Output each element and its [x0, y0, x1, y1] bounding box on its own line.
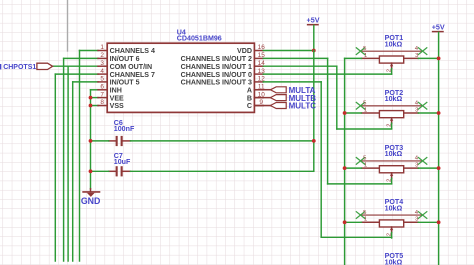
pin 12 CHANNELS IN/OUT 3 stub: [254, 81, 263, 83]
pin name CHANNELS IN/OUT 2: [181, 55, 252, 63]
svg-text:6: 6: [100, 84, 104, 91]
svg-text:1: 1: [364, 107, 367, 113]
pin 16 VDD stub: [254, 50, 263, 52]
junction C7/GND: [89, 169, 93, 173]
svg-text:CHANNELS IN/OUT 1: CHANNELS IN/OUT 1: [181, 63, 252, 71]
pin name VSS: [110, 102, 124, 110]
POT1 pin numbers: [363, 46, 419, 72]
svg-text:1: 1: [364, 217, 367, 223]
resistor POT4 (potentiometer): [356, 212, 427, 233]
pin 10 B stub: [254, 97, 263, 99]
capacitor C7 refdes: [114, 152, 123, 160]
net flag CHPOTS1: [37, 63, 53, 69]
pin name IN/OUT 6: [110, 55, 140, 63]
junction POT2 pin1/bus: [343, 111, 347, 115]
wire POT3 pin1 to bus: [345, 167, 362, 169]
svg-text:10kΩ: 10kΩ: [385, 204, 403, 212]
wire pin stub to flag MULTB: [254, 97, 270, 99]
pin number 10: [258, 91, 266, 98]
resistor POT5 refdes (partially visible): [385, 252, 404, 260]
pin name CHANNELS IN/OUT 0: [181, 71, 252, 79]
wire net CHPOTS1 horizontal to pin 3: [52, 65, 98, 67]
pin number 3: [100, 60, 104, 67]
svg-text:10uF: 10uF: [114, 158, 131, 166]
net label MULTC: [289, 102, 317, 111]
pin 14 CHANNELS IN/OUT 1 stub: [254, 65, 263, 67]
svg-text:IN/OUT 5: IN/OUT 5: [110, 79, 140, 87]
wire POT3 pin3 to +5V rail: [418, 167, 438, 169]
svg-text:5: 5: [100, 76, 104, 83]
svg-text:2: 2: [100, 52, 104, 59]
junction pin 8 VSS: [89, 104, 93, 108]
pin number 4: [100, 68, 104, 75]
wire +5V vertical down to C6/C7: [313, 51, 315, 172]
pin 13 CHANNELS IN/OUT 0 stub: [254, 73, 263, 75]
resistor POT3 (potentiometer): [356, 158, 427, 179]
svg-text:3: 3: [100, 60, 104, 67]
pin name COM OUT/IN: [110, 63, 153, 71]
resistor POT3 value 10k: [385, 150, 403, 158]
IC U4 value CD4051BM96: [177, 34, 222, 42]
pin 8 VSS stub: [98, 105, 107, 107]
capacitor C6 value 100nF: [114, 125, 135, 133]
junction POT3 pin1/bus: [343, 166, 347, 170]
op IC U4 CD4051BM96 body: [107, 43, 254, 112]
svg-text:CHANNELS IN/OUT 0: CHANNELS IN/OUT 0: [181, 71, 252, 79]
pin number 8: [100, 99, 104, 106]
pin 7 VEE stub: [98, 97, 107, 99]
pin name CHANNELS IN/OUT 1: [181, 63, 252, 71]
wire GND net: INH/VEE/VSS down to GND: [91, 90, 99, 189]
pin number 9: [259, 99, 263, 106]
power +5V label: [307, 16, 320, 25]
pin 11 A stub: [254, 89, 263, 91]
svg-text:C: C: [247, 102, 252, 110]
IC U4 refdes: [177, 28, 186, 36]
svg-text:7: 7: [100, 91, 104, 98]
pin number 6: [100, 84, 104, 91]
resistor POT4 refdes: [385, 198, 404, 206]
svg-text:10kΩ: 10kΩ: [385, 40, 403, 48]
wire POT1 wiper down: [391, 69, 393, 75]
wire POT4 wiper down: [391, 233, 393, 239]
ground GND symbol: [83, 189, 99, 197]
wire POT4 pin3 to +5V rail: [418, 221, 438, 223]
resistor POT5 value 10k: [385, 259, 403, 265]
power +5V symbol (at U4 VDD): [308, 25, 318, 51]
net flag MULTA: [270, 87, 286, 93]
pin name VEE: [110, 94, 124, 102]
svg-text:A: A: [247, 87, 252, 95]
pin 15 CHANNELS IN/OUT 2 stub: [254, 57, 263, 59]
resistor POT4 value 10k: [385, 204, 403, 212]
svg-text:+5V: +5V: [432, 22, 445, 31]
wire net pin13 CHANNELS IN/OUT 0 to POT1 wiper: [263, 73, 391, 75]
wire pin stub to flag MULTA: [254, 89, 270, 91]
wire net from pin 5 IN/OUT 5: [73, 82, 98, 261]
resistor POT2 (potentiometer): [356, 102, 427, 123]
net flag MULTB: [270, 95, 286, 101]
pin 4 CHANNELS 7 stub: [98, 73, 107, 75]
pin number 14: [258, 60, 266, 67]
wire C6 left to GND net: [91, 140, 109, 142]
svg-text:CHPOTS1: CHPOTS1: [3, 64, 36, 71]
junction pin 7 VEE: [89, 96, 93, 100]
wire net pin12 CHANNELS IN/OUT 3 to POT4 wiper: [263, 82, 391, 237]
pin 1 CHANNELS 4 stub: [98, 50, 107, 52]
wire C7 left to GND net: [91, 170, 109, 172]
sheet frame divider line: [67, 0, 69, 51]
POT4 pin numbers: [363, 210, 419, 236]
resistor POT2 value 10k: [385, 95, 403, 103]
power +5V symbol (pot rail): [433, 31, 443, 33]
pin number 7: [100, 91, 104, 98]
capacitor C7 value 10uF: [114, 158, 131, 166]
junction POT4 pin1/bus: [343, 220, 347, 224]
svg-text:GND: GND: [81, 196, 101, 206]
svg-text:8: 8: [100, 99, 104, 106]
svg-text:CHANNELS IN/OUT 2: CHANNELS IN/OUT 2: [181, 55, 252, 63]
pin 3 COM OUT/IN stub: [98, 65, 107, 67]
POT2 pin numbers: [363, 101, 419, 127]
resistor POT1 refdes: [385, 34, 404, 42]
pin number 2: [100, 52, 104, 59]
pin number 1: [100, 44, 104, 51]
wire POT1 pin3 to +5V rail: [418, 57, 438, 59]
svg-text:INH: INH: [110, 87, 122, 95]
junction C6/GND: [89, 139, 93, 143]
svg-text:CHANNELS IN/OUT 3: CHANNELS IN/OUT 3: [181, 79, 252, 87]
svg-text:4: 4: [100, 68, 104, 75]
pin name CHANNELS IN/OUT 3: [181, 79, 252, 87]
svg-text:VEE: VEE: [110, 94, 124, 102]
power +5V label: [432, 22, 445, 31]
svg-text:COM OUT/IN: COM OUT/IN: [110, 63, 153, 71]
pin name B: [247, 94, 252, 102]
wire pin stub to flag MULTC: [254, 105, 270, 107]
junction VDD/+5V: [312, 49, 316, 53]
wire net pin15 CHANNELS IN/OUT 2 to POT3 wiper: [263, 58, 391, 183]
pin 2 IN/OUT 6 stub: [98, 57, 107, 59]
pin number 16: [258, 44, 266, 51]
pin name A: [247, 87, 252, 95]
wire net pin14 CHANNELS IN/OUT 1 to POT2 wiper: [263, 66, 391, 129]
pin name CHANNELS 4: [110, 47, 155, 55]
resistor POT3 refdes: [385, 144, 404, 152]
wire POT3 wiper down: [391, 178, 393, 184]
svg-text:VDD: VDD: [237, 47, 252, 55]
svg-text:VSS: VSS: [110, 102, 124, 110]
svg-text:MULTC: MULTC: [289, 102, 317, 111]
wire C7 right to +5V net: [131, 170, 314, 172]
pin name IN/OUT 5: [110, 79, 140, 87]
pin name VDD: [237, 47, 252, 55]
wire +5V pot rail vertical: [438, 32, 440, 265]
svg-text:10kΩ: 10kΩ: [385, 95, 403, 103]
junction POT2 pin3/rail: [437, 111, 441, 115]
wire VDD pin16 to +5V: [263, 50, 314, 52]
ground GND label: [81, 196, 101, 206]
pin 5 IN/OUT 5 stub: [98, 81, 107, 83]
pin number 15: [258, 52, 266, 59]
junction POT4 pin3/rail: [437, 220, 441, 224]
svg-text:100nF: 100nF: [114, 125, 135, 133]
svg-text:1: 1: [364, 53, 367, 59]
junction C6/+5V: [312, 139, 316, 143]
pin name INH: [110, 87, 122, 95]
wire POT2 pin1 to bus: [345, 112, 362, 114]
pin 6 INH stub: [98, 89, 107, 91]
pin number 11: [258, 84, 265, 91]
junction POT1 pin3/rail: [437, 57, 441, 61]
net label CHPOTS1: [0, 64, 36, 71]
net flag MULTC: [270, 103, 286, 109]
wire net from pin 2 IN/OUT 6: [64, 58, 98, 261]
capacitor C6 refdes: [114, 119, 123, 127]
net label MULTA: [289, 86, 316, 95]
resistor POT2 refdes: [385, 89, 404, 97]
pin number 13: [258, 68, 266, 75]
wire POT2 wiper down: [391, 123, 393, 129]
svg-text:1: 1: [100, 44, 104, 51]
wire C6 right to +5V net: [131, 140, 314, 142]
junction POT3 pin3/rail: [437, 166, 441, 170]
pin name CHANNELS 7: [110, 71, 155, 79]
svg-text:CHANNELS 4: CHANNELS 4: [110, 47, 155, 55]
net label MULTB: [289, 94, 317, 103]
wire net from pin 1 CHANNELS 4: [80, 51, 99, 262]
svg-text:IN/OUT 6: IN/OUT 6: [110, 55, 140, 63]
pin number 5: [100, 76, 104, 83]
POT3 pin numbers: [363, 156, 419, 182]
svg-text:CD4051BM96: CD4051BM96: [177, 34, 222, 42]
wire net from pin 4 CHANNELS 7: [55, 74, 98, 261]
svg-text:10kΩ: 10kΩ: [385, 150, 403, 158]
wire pot pin1 bus vertical: [344, 58, 346, 265]
resistor POT1 (potentiometer): [356, 48, 427, 69]
pin number 12: [258, 76, 266, 83]
svg-text:1: 1: [364, 163, 367, 169]
wire net CHPOTS1 vertical branch x=68.1: [67, 66, 69, 261]
svg-text:B: B: [247, 94, 252, 102]
svg-text:CHANNELS 7: CHANNELS 7: [110, 71, 155, 79]
wire POT4 pin1 to bus: [345, 221, 362, 223]
wire POT1 pin1 to bus: [345, 57, 362, 59]
wire POT2 pin3 to +5V rail: [418, 112, 438, 114]
svg-text:10kΩ: 10kΩ: [385, 259, 403, 265]
capacitor C6: [109, 136, 131, 146]
capacitor C7: [109, 166, 131, 176]
pin 9 C stub: [254, 105, 263, 107]
svg-text:+5V: +5V: [307, 16, 320, 25]
pin name C: [247, 102, 252, 110]
resistor POT1 value 10k: [385, 40, 403, 48]
